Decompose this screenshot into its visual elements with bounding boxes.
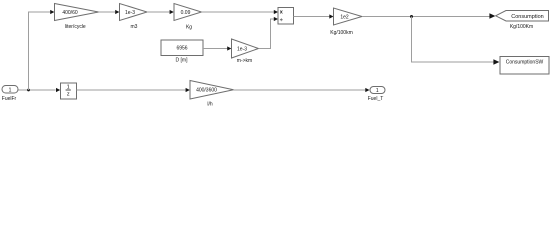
svg-text:Consumption: Consumption	[511, 14, 543, 20]
svg-text:1e-3: 1e-3	[237, 46, 247, 52]
svg-text:6956: 6956	[176, 46, 187, 52]
wire: branch from FuelFr junction up and right to gain liter/cycle	[29, 12, 51, 90]
arrowhead into divide x input	[274, 10, 278, 14]
arrowhead into gain liter/cycle	[50, 10, 54, 14]
svg-text:400/3600: 400/3600	[196, 88, 217, 94]
svg-text:÷: ÷	[280, 17, 283, 23]
wire: gain liter/cycle to gain m3	[99, 11, 116, 13]
constant D (6956)	[161, 40, 203, 56]
wire: constant D to gain m->km	[203, 48, 227, 50]
wire: unit delay to gain l/h	[77, 89, 186, 91]
svg-text:D [m]: D [m]	[176, 58, 189, 64]
svg-text:1: 1	[376, 88, 379, 94]
svg-text:Kg/100km: Kg/100km	[330, 30, 353, 36]
wire: gain Kg to divide x input	[202, 11, 275, 13]
svg-text:1: 1	[9, 87, 12, 93]
arrowhead into gain Kg	[170, 10, 174, 14]
divide block U1	[278, 8, 294, 25]
gain G1 liter/cycle (400/60)	[55, 4, 99, 21]
junction dot on Kg/100km wire	[410, 15, 413, 18]
svg-text:m->km: m->km	[237, 58, 252, 64]
svg-text:FuelFr: FuelFr	[2, 96, 17, 102]
junction dot on FuelFr wire	[27, 89, 30, 92]
wire: gain Kg/100km to Consumption goto	[362, 16, 490, 18]
inport 1 FuelFr	[2, 86, 18, 94]
arrowhead into gain m3	[115, 10, 119, 14]
goto tag Consumption	[496, 11, 549, 22]
svg-text:1e2: 1e2	[340, 14, 349, 20]
wire: gain m3 to gain Kg	[147, 11, 170, 13]
svg-text:1e-3: 1e-3	[125, 10, 135, 16]
arrowhead into ConsumptionSW	[493, 59, 499, 65]
svg-text:m3: m3	[131, 24, 138, 30]
outport 1 Fuel_T	[370, 87, 385, 94]
wire: divide to gain Kg/100km	[294, 16, 330, 18]
gain G5 Kg/100km (1e2)	[334, 8, 363, 25]
wire: gain m->km up to divide ÷ input	[259, 19, 275, 49]
block ConsumptionSW	[500, 57, 549, 75]
arrowhead into outport Fuel_T	[365, 88, 369, 92]
gain G3 Kg (0.09)	[174, 4, 202, 21]
arrowhead into Consumption goto	[489, 13, 495, 19]
svg-text:liter/cycle: liter/cycle	[65, 24, 86, 30]
svg-text:ConsumptionSW: ConsumptionSW	[506, 60, 544, 66]
svg-text:Kg: Kg	[186, 24, 192, 30]
wire: branch down to ConsumptionSW	[412, 17, 494, 63]
svg-text:l/h: l/h	[207, 102, 213, 108]
svg-text:Kg/100Km: Kg/100Km	[510, 24, 533, 30]
arrowhead into gain Kg/100km	[329, 14, 333, 18]
svg-text:Fuel_T: Fuel_T	[368, 96, 384, 102]
arrowhead into unit delay	[56, 88, 60, 92]
gain G4 m->km (1e-3)	[232, 39, 259, 58]
wire: FuelFr inport to Unit Delay	[18, 89, 56, 91]
arrowhead into gain l/h	[186, 88, 190, 92]
wire: gain l/h to outport Fuel_T	[234, 89, 366, 91]
arrowhead into gain m->km	[227, 46, 231, 50]
svg-text:400/60: 400/60	[62, 10, 78, 16]
arrowhead into divide ÷ input	[274, 17, 278, 21]
svg-text:z: z	[67, 92, 70, 98]
unit delay block 1/z	[61, 83, 77, 99]
gain G2 m3 (1e-3)	[120, 4, 148, 21]
gain G6 l/h (400/3600)	[190, 81, 234, 100]
svg-text:0.09: 0.09	[181, 10, 191, 16]
